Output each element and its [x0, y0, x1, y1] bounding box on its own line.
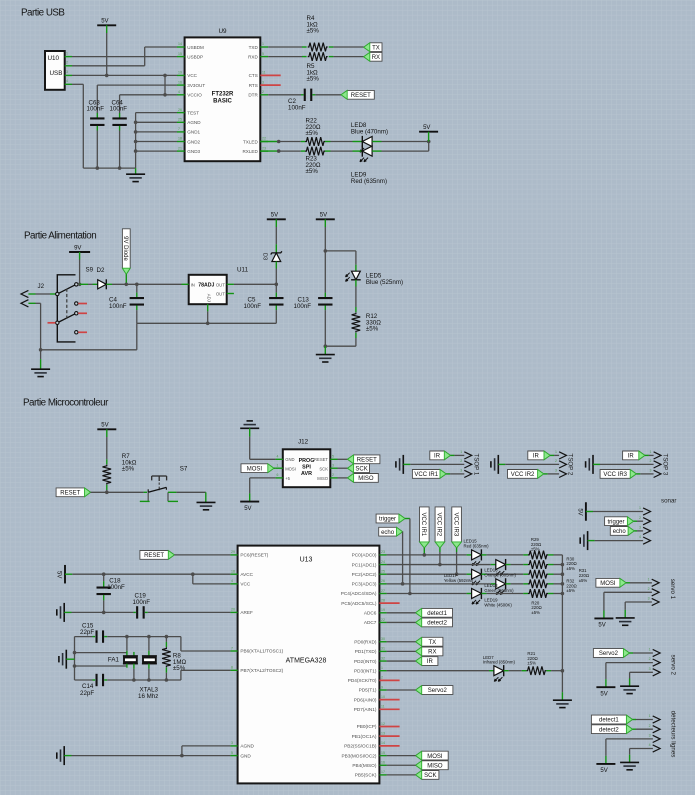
resistor R21 220Ohm	[522, 670, 527, 672]
flag echo (U13)	[379, 527, 403, 536]
flag RESET (USB)	[341, 90, 374, 99]
svg-text:MOSI: MOSI	[247, 466, 263, 472]
wire PD5 to Servo2	[387, 689, 416, 691]
wire servo1 5V	[603, 592, 605, 610]
svg-text:S7: S7	[180, 466, 188, 473]
wire row to crystal1 bottom	[75, 665, 127, 667]
wire GND3 row	[134, 149, 138, 153]
svg-text:TSOP 3: TSOP 3	[661, 453, 668, 475]
wire U10 pin2 jog to USBDM	[72, 65, 145, 67]
svg-text:1: 1	[460, 450, 462, 454]
junction 5V/VCC	[105, 74, 109, 78]
ground (servo 1)	[624, 610, 626, 618]
svg-text:16: 16	[178, 80, 182, 84]
svg-text:VCC IR2: VCC IR2	[511, 472, 535, 478]
svg-text:4: 4	[277, 455, 279, 459]
power 5V sideways (AVCC)	[64, 565, 66, 584]
flag VCC IR1	[412, 470, 446, 479]
svg-text:Orange (605nm): Orange (605nm)	[484, 572, 516, 577]
flag RX	[364, 52, 382, 61]
flag detect2 (detecteurs)	[591, 725, 632, 734]
wire TXD to R4	[268, 46, 302, 48]
svg-text:VCC IR3: VCC IR3	[452, 513, 458, 537]
svg-text:ADC6: ADC6	[364, 611, 377, 616]
resistor R32 220Ohm	[528, 580, 548, 589]
svg-text:Partie Microcontroleur: Partie Microcontroleur	[23, 398, 109, 409]
svg-text:PB7(XTAL2/TOSC2): PB7(XTAL2/TOSC2)	[240, 668, 283, 673]
ground sideways (AREF net)	[63, 603, 65, 622]
svg-text:PB4(MISO): PB4(MISO)	[352, 763, 376, 768]
svg-text:4: 4	[649, 743, 651, 747]
ground sideways (sonar)	[587, 531, 589, 550]
wire LED8 to 5V node	[382, 141, 429, 143]
svg-text:±5%: ±5%	[173, 665, 186, 672]
svg-text:PD5(T1): PD5(T1)	[359, 688, 377, 693]
svg-text:TSOP 2: TSOP 2	[567, 453, 574, 475]
power 9V rail	[69, 251, 90, 253]
wire LED bus vertical	[561, 555, 563, 671]
flag VCC IR3	[600, 470, 636, 479]
connector TSOP 2 pins	[559, 452, 566, 459]
svg-text:ADC7: ADC7	[364, 620, 377, 625]
power 5V (LED5 branch)	[316, 218, 335, 220]
wire LED to R29	[486, 554, 523, 556]
svg-text:+5: +5	[285, 476, 290, 481]
flag VCC IR2	[508, 470, 544, 479]
svg-text:±5%: ±5%	[306, 130, 319, 137]
svg-text:5V: 5V	[271, 213, 278, 219]
svg-text:11: 11	[262, 71, 266, 75]
connector U10 USB	[45, 51, 65, 90]
svg-text:SCK: SCK	[319, 466, 328, 471]
wire TEST row	[136, 112, 177, 114]
svg-text:5V: 5V	[600, 768, 607, 774]
svg-text:19: 19	[178, 71, 182, 75]
flag detect1 (detecteurs)	[591, 715, 632, 724]
wire GND2 row	[134, 140, 138, 144]
flag trigger (sonar)	[605, 517, 634, 526]
svg-text:VCCIO: VCCIO	[187, 93, 202, 98]
power 5V (J12) below	[240, 501, 259, 503]
junction C18	[102, 572, 106, 576]
flag MISO (J12)	[348, 474, 379, 483]
wire TSOP 1 middle pin	[410, 463, 464, 465]
flag echo (sonar)	[610, 527, 634, 536]
svg-text:Red (635nm): Red (635nm)	[464, 543, 490, 548]
flag detect2 (U13)	[416, 618, 453, 627]
wire 5V to D3	[275, 227, 277, 244]
svg-text:5V: 5V	[101, 423, 108, 429]
wire RESET pin to flag	[338, 458, 348, 460]
detecteurs lignes pins	[653, 716, 660, 723]
svg-text:FA1: FA1	[108, 656, 120, 663]
resistor R30 220Ohm	[528, 560, 548, 569]
svg-text:9V: 9V	[74, 245, 81, 251]
svg-text:IN: IN	[191, 283, 195, 288]
regulator U11 78ADJ	[189, 275, 227, 304]
LED PC2 LED17	[472, 569, 482, 579]
svg-text:19: 19	[381, 608, 385, 612]
power 5V (servo 1) below	[603, 611, 605, 619]
junction VCC branch	[191, 572, 195, 576]
wire 5V to R7	[106, 437, 108, 459]
flag RESET (U13)	[140, 551, 175, 560]
svg-text:U9: U9	[218, 28, 227, 35]
svg-text:1: 1	[262, 42, 264, 46]
svg-text:RX: RX	[428, 650, 436, 656]
wire detect2 to pin	[633, 728, 637, 730]
wire LED7 to R21	[509, 670, 522, 672]
svg-text:detect2: detect2	[599, 727, 619, 733]
svg-text:100nF: 100nF	[133, 599, 151, 606]
svg-text:3: 3	[460, 469, 462, 473]
svg-text:2: 2	[555, 459, 557, 463]
svg-text:29: 29	[231, 550, 235, 554]
svg-text:±5%: ±5%	[527, 661, 536, 666]
wire OUT to C5/D3 node	[234, 283, 276, 285]
svg-text:16: 16	[381, 761, 385, 765]
svg-text:USB: USB	[50, 70, 63, 77]
wire SCK pin to flag	[338, 467, 348, 469]
svg-text:Servo2: Servo2	[428, 688, 448, 694]
wire sonar gnd pin	[595, 540, 644, 542]
svg-text:detect1: detect1	[599, 718, 619, 724]
svg-text:2: 2	[649, 657, 651, 661]
svg-text:VCC IR1: VCC IR1	[420, 513, 426, 537]
resistor R29 220Ohm	[528, 551, 548, 560]
svg-text:detect2: detect2	[427, 621, 447, 627]
wire R31 to bus	[554, 573, 563, 575]
wire ground rail alimentation	[41, 349, 137, 351]
capacitor C63 100nF	[96, 85, 98, 113]
junction C4 tap	[135, 283, 139, 287]
ground (detecteurs)	[629, 755, 631, 763]
svg-text:±5%: ±5%	[579, 578, 588, 583]
svg-text:31: 31	[381, 647, 385, 651]
svg-text:2: 2	[648, 587, 650, 591]
wire VCC IR3 to pin	[636, 473, 640, 475]
svg-text:RESET: RESET	[314, 457, 328, 462]
svg-text:AGND: AGND	[240, 744, 254, 749]
svg-text:trigger: trigger	[607, 519, 624, 525]
resistor R31 220Ohm	[528, 570, 548, 579]
wire rail to XTAL2 pin	[180, 670, 182, 680]
svg-text:3: 3	[66, 70, 68, 74]
svg-text:Red (635nm): Red (635nm)	[351, 178, 387, 185]
svg-text:TXD: TXD	[249, 45, 259, 50]
IC U13 ATMEGA328	[238, 546, 380, 784]
wire ground rail under caps	[83, 167, 135, 169]
svg-text:6: 6	[277, 473, 279, 477]
svg-text:U11: U11	[237, 267, 249, 274]
servo 1 pins	[652, 579, 659, 586]
capacitor C4 100nF	[136, 284, 138, 292]
wire TSOP 2 middle pin	[505, 463, 559, 465]
resistor R4 1kOhm	[308, 43, 328, 52]
svg-text:VCC: VCC	[187, 73, 197, 78]
svg-text:PD0(RXD): PD0(RXD)	[354, 639, 377, 644]
svg-text:U10: U10	[48, 55, 60, 62]
svg-text:100nF: 100nF	[107, 584, 125, 591]
resistor R12 330Ohm	[355, 307, 357, 312]
svg-text:VCC IR1: VCC IR1	[414, 472, 438, 478]
svg-text:22: 22	[381, 618, 385, 622]
capacitor C18 100nF	[103, 574, 105, 581]
wire 3V3OUT net	[97, 84, 177, 86]
wire VCC branch	[192, 574, 194, 584]
svg-text:100nF: 100nF	[288, 104, 306, 111]
wire VCC IR1 to PC0	[423, 548, 425, 555]
svg-text:U13: U13	[300, 557, 313, 564]
svg-text:2: 2	[66, 61, 68, 65]
svg-text:PD7(AIN1): PD7(AIN1)	[354, 707, 377, 712]
svg-text:5V: 5V	[244, 506, 251, 512]
wire R21 to bus	[551, 670, 562, 672]
svg-text:PB6(XTAL1/TOSC1): PB6(XTAL1/TOSC1)	[240, 649, 283, 654]
svg-text:TX: TX	[372, 45, 380, 51]
svg-text:S9: S9	[86, 267, 94, 274]
svg-text:RESET: RESET	[357, 457, 377, 463]
wire trigger to pin	[634, 520, 638, 522]
svg-text:PC0(ADC0): PC0(ADC0)	[352, 553, 377, 558]
junction VCCIO	[163, 93, 167, 97]
svg-text:100nF: 100nF	[109, 303, 127, 310]
LED7 Infrared (850nm)	[489, 670, 494, 672]
wire PD1 to RX	[387, 650, 416, 652]
svg-text:PROG: PROG	[299, 458, 315, 464]
wire rail to XTAL1 pin	[180, 637, 182, 651]
svg-text:PB3(MOSI/OC2): PB3(MOSI/OC2)	[341, 753, 376, 758]
svg-text:14: 14	[381, 741, 385, 745]
svg-text:2: 2	[650, 459, 652, 463]
svg-text:AGND: AGND	[187, 120, 201, 125]
svg-text:RESET: RESET	[60, 490, 80, 496]
connector TSOP 3 pins	[654, 452, 661, 459]
svg-text:PC5(ADC5/SCL): PC5(ADC5/SCL)	[341, 601, 377, 606]
wire Servo2 to servo2 pin1	[630, 652, 634, 654]
svg-text:RXD: RXD	[248, 54, 258, 59]
junction VCC/VCCIO branch	[163, 74, 167, 78]
svg-text:±5%: ±5%	[307, 28, 320, 35]
svg-text:TSOP 1: TSOP 1	[473, 453, 480, 475]
svg-text:5V: 5V	[320, 213, 327, 219]
wire GND1 row	[134, 130, 138, 134]
wire trigger vertical	[405, 518, 410, 520]
junction xtal2 row	[73, 664, 77, 668]
svg-text:1: 1	[381, 666, 383, 670]
wire LED to R32	[511, 583, 524, 585]
svg-text:RXLED: RXLED	[242, 149, 258, 154]
wire detecteurs gnd	[629, 749, 631, 755]
svg-text:PD1(TXD): PD1(TXD)	[355, 649, 377, 654]
flag IR (TSOP 2)	[528, 451, 550, 460]
svg-text:VCC IR3: VCC IR3	[603, 472, 627, 478]
connector J12 PROG SPI AVR	[283, 449, 331, 487]
svg-text:100nF: 100nF	[87, 106, 105, 113]
flag IR (TSOP 1)	[430, 451, 451, 460]
wire LED to R30	[511, 564, 524, 566]
svg-text:5V: 5V	[598, 623, 605, 629]
wire ADJ to rail	[207, 311, 209, 323]
svg-text:12: 12	[381, 722, 385, 726]
svg-text:PB5(SCK): PB5(SCK)	[355, 773, 377, 778]
wire PC0 LED15 row	[387, 554, 467, 556]
svg-text:IR: IR	[427, 659, 434, 665]
wire RESET to PC6	[174, 554, 230, 556]
svg-text:3: 3	[231, 741, 233, 745]
svg-text:GND3: GND3	[187, 149, 200, 154]
svg-text:PD4(XCK/T0): PD4(XCK/T0)	[348, 678, 377, 683]
wire R29 to bus	[554, 554, 563, 556]
IC U9 FT232R BASIC	[185, 37, 261, 161]
svg-text:MOSI: MOSI	[285, 466, 296, 471]
flag Servo2 (servo 2)	[593, 649, 629, 658]
wire D3 to OUT node	[275, 269, 277, 285]
svg-text:PC3(ADC3): PC3(ADC3)	[352, 582, 377, 587]
wire R12 to ground node	[355, 338, 357, 346]
wire +5 to 5V bar	[250, 477, 276, 479]
svg-text:10: 10	[381, 695, 385, 699]
svg-text:PC1(ADC1): PC1(ADC1)	[352, 562, 377, 567]
wire LED to R31	[486, 573, 523, 575]
wire LED to R20	[486, 593, 523, 595]
svg-text:4: 4	[639, 535, 641, 539]
wire AGND branch	[181, 746, 183, 756]
junction LED8/5V	[427, 140, 431, 144]
svg-text:PB2(SS/OC1B): PB2(SS/OC1B)	[344, 744, 377, 749]
flag VCC IR1 (vertical)	[420, 507, 430, 548]
wire PC2 LED17 row	[387, 573, 467, 575]
svg-text:D3: D3	[261, 253, 267, 260]
svg-text:Infrared (850nm): Infrared (850nm)	[483, 660, 516, 665]
resistor R8 1MOhm	[165, 637, 167, 642]
wire VCC IR2 to PC1	[439, 548, 441, 552]
svg-text:±5%: ±5%	[566, 588, 575, 593]
svg-text:1: 1	[639, 506, 641, 510]
svg-text:1: 1	[649, 648, 651, 652]
wire PB5 to SCK	[387, 774, 416, 776]
ground (J12) inverted	[240, 427, 259, 429]
wire 5V to AVCC	[72, 573, 230, 575]
svg-text:MOSI: MOSI	[600, 581, 616, 587]
svg-text:IR: IR	[628, 454, 635, 460]
wire R20 to bus	[554, 593, 563, 595]
flag detect1 (U13)	[416, 608, 453, 617]
svg-text:100nF: 100nF	[244, 303, 262, 310]
ground (servo 2)	[629, 679, 631, 687]
wire RXD to R5	[268, 56, 302, 58]
junction C63 gnd	[96, 166, 100, 170]
svg-text:PD2(INT0): PD2(INT0)	[354, 659, 377, 664]
svg-text:echo: echo	[613, 529, 627, 535]
svg-text:5V: 5V	[600, 691, 607, 697]
wire PC4 LED19 row	[387, 593, 467, 595]
wire R5 to RX flag	[333, 56, 363, 58]
flag RX (U13)	[416, 647, 443, 656]
svg-text:Partie Alimentation: Partie Alimentation	[24, 231, 96, 242]
wire R30 to bus	[554, 564, 563, 566]
wire U10 pin3 VCC net	[72, 74, 177, 76]
connector TSOP 1 pins	[464, 452, 471, 459]
svg-text:ADJ: ADJ	[206, 294, 211, 302]
svg-text:MOSI: MOSI	[427, 754, 443, 760]
svg-text:Partie USB: Partie USB	[21, 8, 65, 19]
wire RESET flag to node	[91, 491, 107, 493]
svg-text:1: 1	[277, 463, 279, 467]
svg-text:PC4(ADC4/SDA): PC4(ADC4/SDA)	[341, 591, 377, 596]
resistor R22 220Ohm	[305, 137, 325, 146]
wire R7 to RESET node	[106, 490, 108, 492]
svg-text:18: 18	[178, 137, 182, 141]
svg-text:18: 18	[231, 570, 235, 574]
svg-text:4: 4	[178, 90, 180, 94]
svg-text:PC2(ADC2): PC2(ADC2)	[352, 572, 377, 577]
wire PC1 LED16 row	[387, 564, 491, 566]
svg-text:White (4500K): White (4500K)	[484, 602, 512, 607]
svg-text:FT232R: FT232R	[212, 92, 234, 98]
wire DTR to C2	[268, 94, 301, 96]
svg-text:1: 1	[555, 450, 557, 454]
svg-text:17: 17	[381, 770, 385, 774]
svg-text:±5%: ±5%	[566, 566, 575, 571]
wire PB3 to MOSI	[387, 755, 416, 757]
wire sonar 5V pin	[593, 511, 643, 513]
wire U10 pin1 to USBDP	[72, 56, 177, 58]
svg-text:Green (568nm): Green (568nm)	[484, 588, 514, 593]
svg-text:2: 2	[649, 724, 651, 728]
svg-text:4: 4	[231, 579, 233, 583]
wire servo2 5V	[605, 663, 607, 680]
ground sideways (crystal)	[65, 650, 67, 669]
flag SCK (U13)	[416, 771, 439, 780]
wire J2 pin2 to ground	[36, 302, 41, 304]
wire RXLED to R23	[260, 150, 278, 152]
sonar pins	[643, 508, 650, 515]
svg-text:5V: 5V	[101, 19, 108, 25]
wire VCC IR2 to pin	[544, 473, 548, 475]
wire gnd to J12 GND pin	[249, 437, 251, 460]
LED PC3 LED18	[496, 579, 506, 589]
svg-text:VCC IR2: VCC IR2	[436, 513, 442, 537]
wire S9 throw to D2	[78, 283, 79, 285]
svg-text:14: 14	[178, 42, 182, 46]
wire crystal top rail	[75, 636, 93, 638]
svg-text:9V Diode: 9V Diode	[122, 236, 128, 261]
flag MOSI (servo 1)	[596, 578, 626, 587]
svg-text:26: 26	[381, 579, 385, 583]
svg-text:GND2: GND2	[187, 139, 200, 144]
svg-text:USBDM: USBDM	[187, 45, 204, 50]
wire R32 to bus	[554, 583, 563, 585]
svg-text:sonar: sonar	[661, 498, 676, 505]
svg-text:SPI: SPI	[302, 465, 311, 471]
flag MOSI (J12)	[241, 464, 274, 473]
svg-text:TEST: TEST	[187, 110, 199, 115]
wire TXLED to R22	[260, 141, 278, 143]
wire row to crystal1 top	[75, 652, 127, 654]
wire TEST/AGND/GND bus vertical	[135, 113, 137, 169]
crystal FA1 (element 1)	[126, 637, 128, 651]
svg-text:3: 3	[332, 463, 334, 467]
wire IR to pin (TSOP 1)	[450, 454, 454, 456]
wire PD0 to TX	[387, 641, 416, 643]
svg-text:30: 30	[381, 637, 385, 641]
wire R22 to LED8	[331, 141, 353, 143]
svg-text:20: 20	[231, 608, 235, 612]
wire detecteurs 5V	[605, 739, 607, 756]
wire LED9 to 5V node	[382, 150, 429, 152]
svg-text:RTS: RTS	[249, 83, 258, 88]
